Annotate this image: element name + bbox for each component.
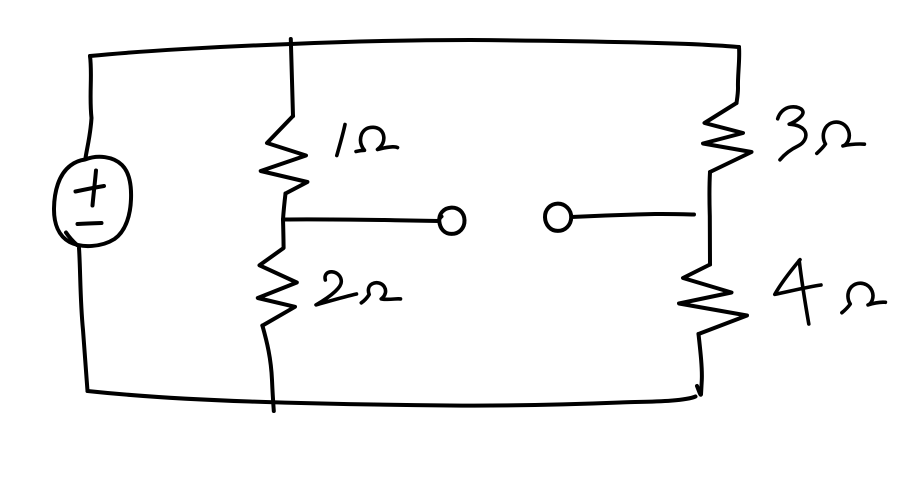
node a open terminal <box>439 208 464 234</box>
resistor R1 1ohm <box>261 116 308 194</box>
voltage source V1 <box>54 157 131 246</box>
wire middle branch vertical top <box>291 39 293 116</box>
wire right corner vertical <box>737 47 740 103</box>
wire below R2 to bottom <box>262 326 273 411</box>
wire node to terminal a <box>283 219 439 221</box>
wire left vertical top <box>86 56 92 158</box>
resistor R3 3ohm <box>703 103 752 172</box>
resistor R2 2ohm <box>258 220 297 326</box>
wire below R4 to bottom with hook <box>697 334 702 395</box>
wire between R3 and R4 <box>707 172 712 265</box>
wire bottom <box>88 391 696 406</box>
wire left vertical bottom <box>79 248 88 391</box>
wire top from source to right corner <box>90 40 739 56</box>
resistor R4 4ohm <box>679 265 747 335</box>
label 3 ohm <box>778 107 865 160</box>
label 1 ohm <box>337 125 398 156</box>
label 2 ohm <box>316 272 401 305</box>
node b open terminal <box>545 204 571 231</box>
wire below R1 to node <box>283 194 286 220</box>
wire terminal b to right branch <box>572 214 695 217</box>
label 4 ohm <box>775 260 886 324</box>
